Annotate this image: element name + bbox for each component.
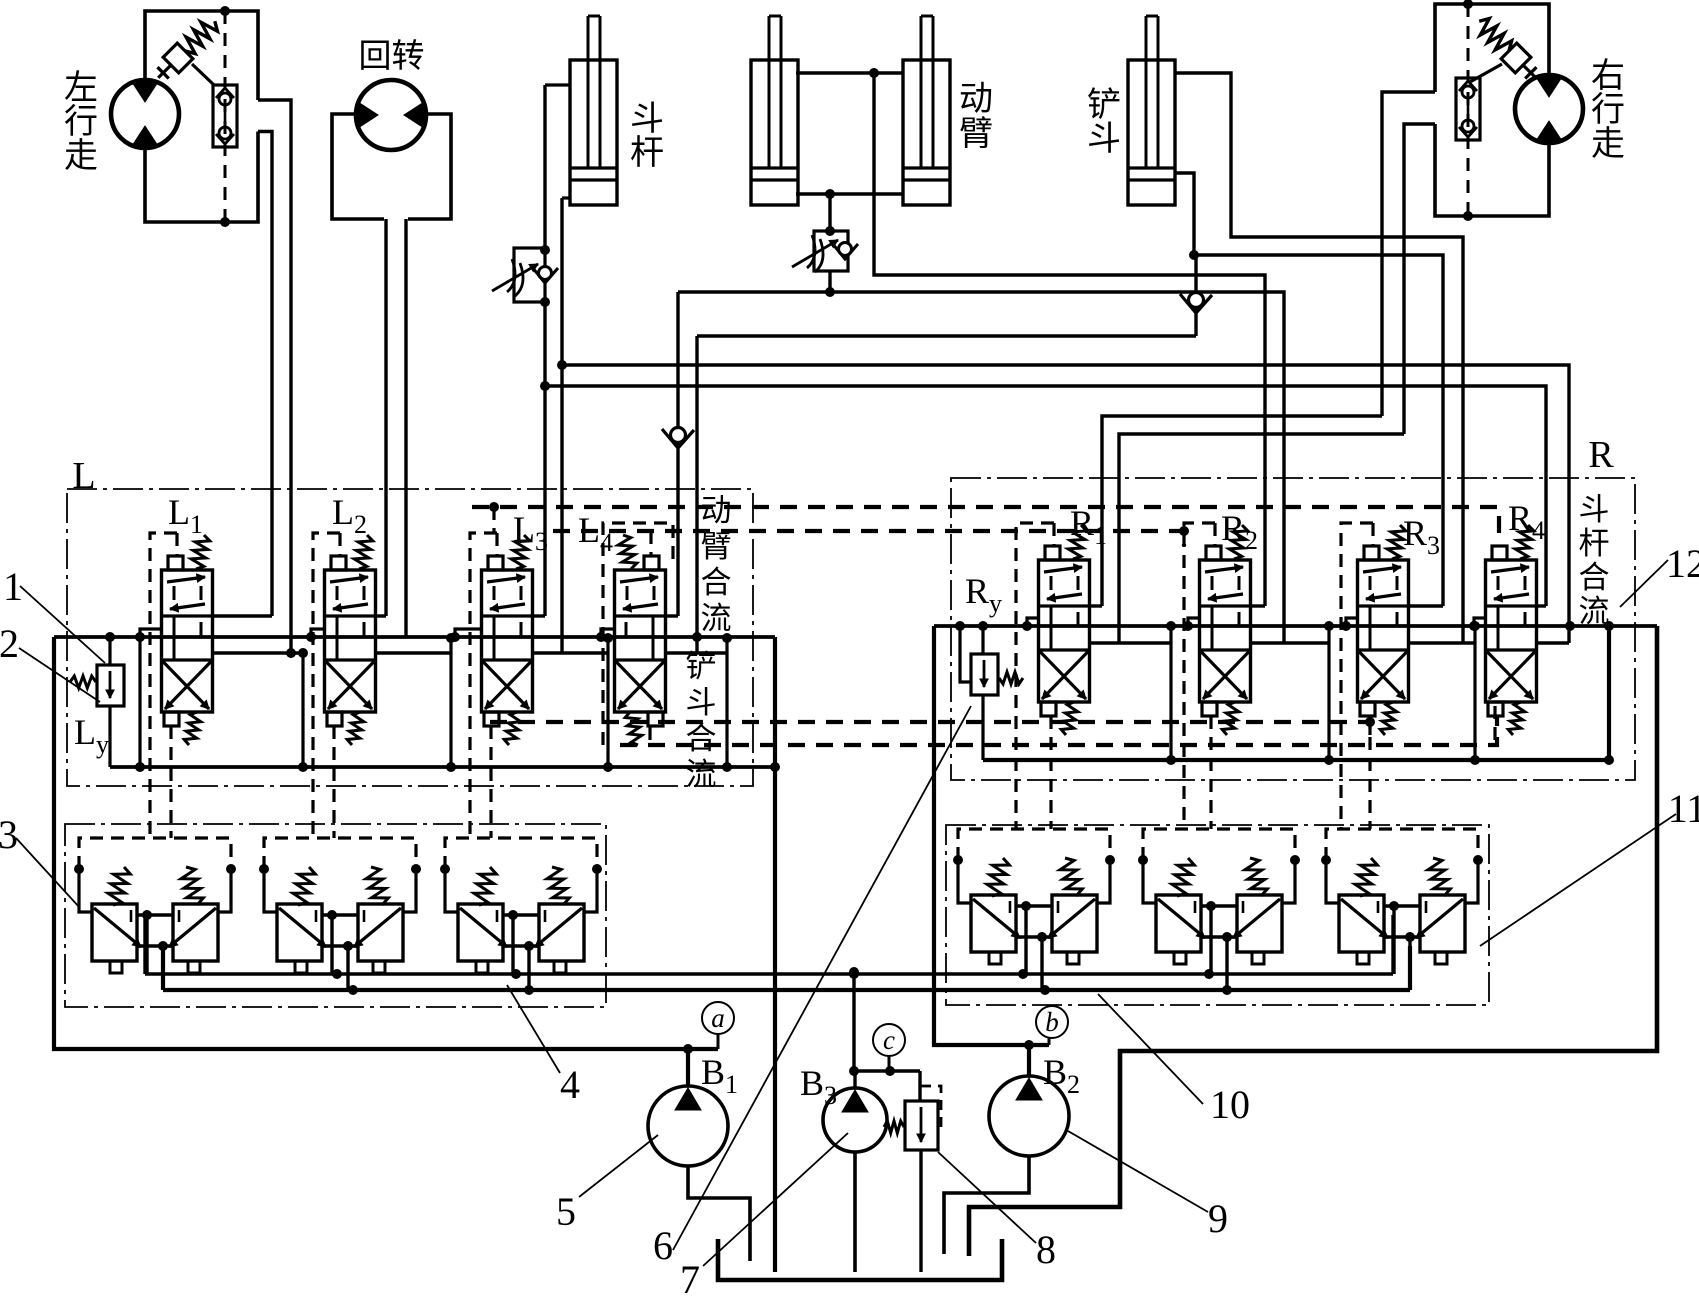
left travel drain line [224,11,227,222]
wire [1470,64,1502,82]
wire swing A [384,219,387,616]
wire L3 upper-right port [533,614,545,617]
svg-text:斗: 斗 [1087,121,1121,158]
wire R lower bus [983,758,1609,762]
pilot line R4 bottom [1493,706,1496,745]
pilot valve pair left 2 [259,838,421,990]
wire boom rod line to R2 upper [874,73,1265,606]
valve R2 [1200,525,1251,735]
pilot line L4 bottom [648,727,651,745]
wire R2 drain [1327,626,1330,760]
pressure gauge c [873,1024,905,1056]
callout 1 [3,564,105,663]
pilot line [313,533,340,838]
svg-text:流: 流 [686,757,717,792]
pilot line [150,533,177,838]
wire R1 drain [1169,626,1172,760]
valve Ly [70,665,124,706]
svg-text:合: 合 [701,565,732,600]
hydraulic motor swing [356,80,426,150]
R pilot block boundary [946,825,1489,1005]
svg-text:臂: 臂 [701,529,732,564]
wire [192,64,214,85]
callout 6 [653,706,971,1268]
wire R3 upper-left port [1346,618,1358,626]
right travel motor circuit frame [1435,4,1549,216]
svg-text:走: 走 [1591,126,1625,163]
wire stick line down to L3 [543,302,546,616]
pilot valve pair right 1 [953,829,1115,990]
callout 11 [1480,786,1699,946]
right travel drain line [1467,4,1470,216]
throttle/check valve stick [492,248,558,302]
wire R3 drain [1473,626,1476,760]
svg-text:斗: 斗 [686,685,717,720]
valve R1 [1039,525,1090,735]
wire L4 lower-right port [666,651,727,654]
wire B2 outlet manifold [934,626,1049,1045]
wire B3 suction [853,1152,857,1272]
pilot valve pair left 1 [74,838,236,990]
wire L1 upper-right port [213,614,272,617]
wire boom top link [796,71,903,74]
svg-text:合: 合 [686,721,717,756]
svg-text:斗: 斗 [1579,492,1610,527]
wire pilot tank bus [161,946,165,990]
wire L lower bus [110,765,775,769]
svg-text:c: c [883,1025,895,1055]
wire gauge a [717,1034,720,1049]
wire Ry bypass [960,626,971,682]
svg-text:流: 流 [1579,594,1610,629]
cylinder boom left [751,16,798,205]
pressure gauge a [702,1002,734,1034]
wire R1 upper cross line [1102,416,1382,606]
svg-text:左: 左 [64,69,98,107]
wire relief 8 drain [919,1150,922,1272]
wire R4 lower-right port [1537,641,1569,644]
hydraulic motor left travel [111,80,179,148]
wire swing B [404,219,407,637]
wire R4 upper-right port [1537,604,1546,607]
wire L4 upper-left port [601,629,614,637]
wire L1 drain [301,653,304,767]
wire right travel port B [1404,124,1435,434]
pilot line [1184,523,1215,829]
valve L1 [162,535,213,745]
wire L2 lower-right port [376,651,451,654]
svg-text:11: 11 [1668,786,1699,831]
valve L2 [325,535,376,745]
wire Ly top [108,637,111,665]
wire left travel port B [258,132,272,617]
callout 9 [1068,1131,1228,1241]
wire bucket rod port [1175,173,1194,255]
wire R2 upper-left port [1188,618,1200,626]
wire B3 top manifold [850,1069,920,1072]
wire pilot pressure bus [143,915,146,974]
wire stick head port [545,83,570,86]
svg-text:铲: 铲 [686,649,717,684]
wire stick merge line to R4 upper [545,386,1546,606]
svg-text:10: 10 [1210,1082,1250,1127]
wire B1 supply riser [54,637,718,1049]
callout 4 [507,985,580,1107]
wire gauge c [888,1056,891,1071]
callout 3 [0,812,80,908]
wire gauge b [1048,1038,1051,1045]
callout 8 [938,1152,1056,1272]
check valve boom L4 [662,428,694,449]
valve L3 [482,535,533,745]
svg-text:L: L [72,455,95,497]
wire L2 upper-left port [311,629,324,637]
pilot line L4 top [649,531,652,556]
wire L1 lower-right port [213,651,303,654]
relief valve 8 [905,1101,938,1150]
wire R lower bus riser [1607,626,1611,760]
pump B3 [823,1088,887,1152]
pilot line [470,533,497,838]
wire B1 suction [688,1166,750,1261]
svg-text:3: 3 [0,812,18,857]
wire right travel port A [1382,92,1435,416]
wire R boundary return [969,626,1657,1256]
pilot valve pair right 2 [1138,829,1300,990]
check valve bucket [1180,293,1212,314]
wire Ry top [981,626,984,654]
callout 10 [1098,994,1250,1127]
L pilot block boundary [65,824,606,1007]
relief valve right travel relief [1471,13,1543,85]
dual check valve right travel [1456,78,1480,140]
callout 12 [1620,541,1699,607]
wire R1 upper-left port [1027,618,1039,626]
hydraulic motor right travel [1515,75,1583,143]
tank [718,1239,1002,1280]
svg-text:右: 右 [1591,57,1625,95]
valve L4 [615,535,666,745]
svg-text:12: 12 [1666,541,1699,586]
pilot valve pair right 3 [1321,829,1483,990]
pilot line 斗杆合流 (dashed bus A) [472,507,1499,536]
svg-text:动: 动 [959,81,993,118]
svg-text:合: 合 [1579,560,1610,595]
wire L block main bus [54,635,775,639]
svg-text:R: R [1588,434,1614,476]
wire bucket line to L4 via check [697,334,1196,337]
wire left travel port A [258,100,291,653]
svg-text:a: a [711,1003,725,1033]
wire R4 upper-left port [1474,618,1486,626]
wire boom line down to L4 upper [676,292,679,616]
svg-text:7: 7 [680,1257,700,1294]
pilot line L4 dashed frame [603,523,673,745]
svg-text:斗: 斗 [630,101,664,138]
L block boundary [67,489,753,786]
svg-text:b: b [1045,1007,1059,1037]
svg-text:6: 6 [653,1223,673,1268]
cylinder bucket 铲斗 [1128,16,1175,205]
wire line down to L4 lower [695,336,698,653]
wire Ly bottom [108,706,111,767]
wire R2 lower-right port [1251,641,1329,644]
wire L1 upper-left port [140,629,162,637]
svg-text:行: 行 [1591,91,1625,129]
wire L4 drain [725,637,728,767]
svg-text:杆: 杆 [1579,526,1610,561]
svg-text:臂: 臂 [959,115,993,153]
svg-text:5: 5 [556,1189,576,1234]
dual check valve left travel [213,85,237,147]
pump B1 [648,1086,728,1166]
wire stick merge line to R4 lower [562,365,1569,643]
wire L3 upper-left port [455,629,481,637]
wire R1 upper-right port [1090,604,1102,607]
pilot valve pair left 3 [440,838,602,990]
pilot line 铲斗合流 (dashed bus D) [620,716,1497,745]
wire L3 drain [606,637,609,767]
svg-text:2: 2 [0,621,19,666]
swing motor circuit frame [332,114,451,219]
wire R1 lower-right port [1090,641,1171,644]
R block boundary [951,478,1635,780]
callout 7 [680,1133,848,1299]
cylinder stick 斗杆 [570,16,617,205]
valve R4 [1486,525,1537,735]
pilot line 动臂合流 (dashed bus B) [553,531,1184,546]
pilot line [1341,523,1373,829]
wire R3 upper-right port [1409,604,1443,607]
pilot line 铲斗合流 (dashed bus C) [490,720,1370,724]
svg-text:铲: 铲 [1087,86,1121,124]
wire relief 8 top [918,1071,921,1101]
pressure gauge b [1036,1006,1068,1038]
svg-text:4: 4 [560,1062,580,1107]
wire B1 outlet [686,1049,690,1086]
svg-text:回: 回 [359,39,392,75]
pump B2 [989,1076,1069,1156]
wire L2 upper-right port [376,614,386,617]
svg-text:动: 动 [701,493,732,528]
wire boom head line [828,271,831,292]
wire bucket to R3 upper [1194,255,1443,606]
wire R3 lower-right port [1409,641,1475,644]
wire R1 lower cross line [1119,434,1404,643]
cylinder boom right [903,16,950,205]
wire Ry bottom [981,695,984,760]
wire L3 lower-right port [533,651,608,654]
left travel motor circuit frame [145,11,258,222]
pilot line [1016,523,1054,829]
svg-text:转: 转 [392,38,425,75]
wire B2 suction [944,1156,1029,1254]
wire stick rod port [562,196,570,199]
throttle/check valve boom [792,231,858,272]
svg-text:9: 9 [1208,1196,1228,1241]
relief valve left travel relief [150,13,222,85]
wire R2 upper-right port [1251,604,1265,607]
wire B3 outlet riser [852,972,855,1071]
svg-text:行: 行 [64,103,98,141]
valve R3 [1358,525,1409,735]
svg-text:走: 走 [64,138,98,175]
wire L return line to tank [773,637,777,1272]
svg-text:流: 流 [701,601,732,636]
wire R block main bus [934,624,1657,628]
svg-text:8: 8 [1036,1227,1056,1272]
wire boom head line to R2 lower [678,292,1284,643]
callout 2 [0,621,100,702]
svg-text:杆: 杆 [630,135,664,172]
wire L4 upper-right port [666,614,678,617]
wire L2 drain [449,637,452,767]
wire boom bottom link [796,192,903,195]
check valve bucket [1194,255,1197,336]
wire bucket head port [1175,73,1463,643]
callout 5 [556,1135,658,1234]
valve Ry [971,654,1023,695]
